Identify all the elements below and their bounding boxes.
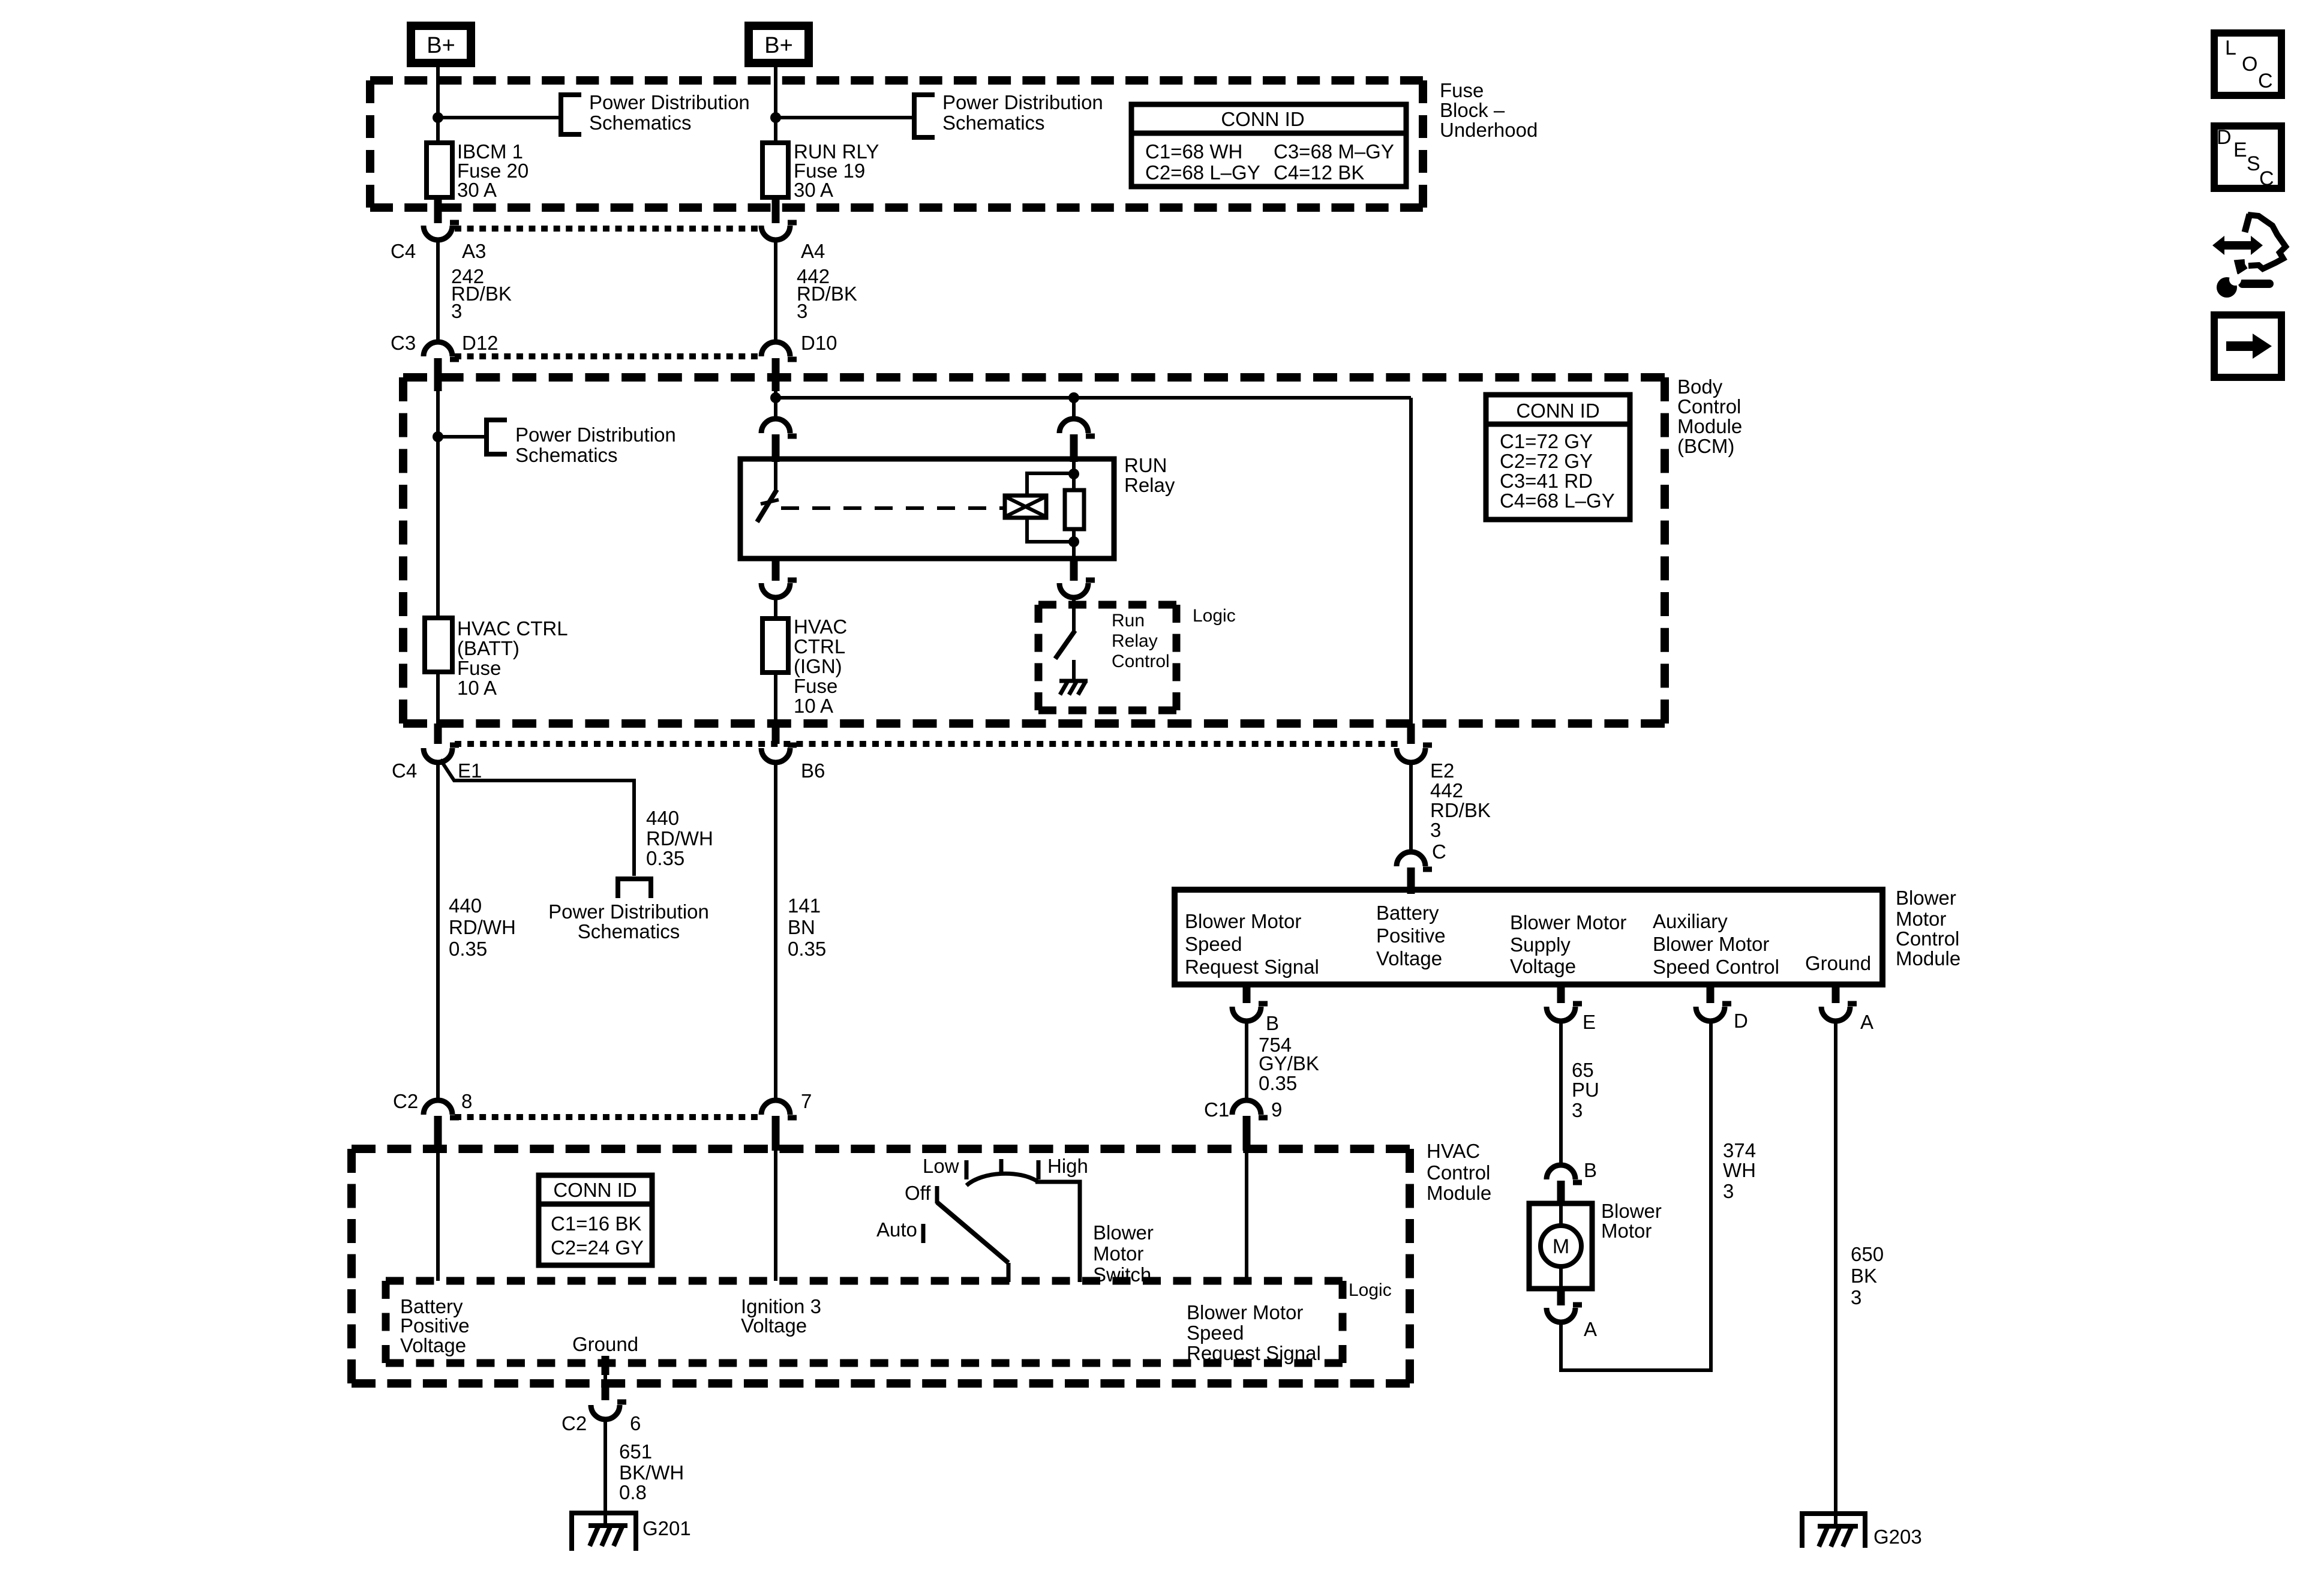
svg-text:651: 651 bbox=[619, 1440, 652, 1463]
svg-text:440: 440 bbox=[449, 894, 482, 917]
svg-text:Module: Module bbox=[1427, 1182, 1491, 1204]
run relay control switch bbox=[1055, 631, 1075, 659]
svg-text:E: E bbox=[2233, 139, 2247, 161]
wire 442 RD/BK: BCM internal to E2 bbox=[1409, 398, 1413, 724]
CONN ID table (HVAC) bbox=[539, 1175, 652, 1265]
svg-text:Motor: Motor bbox=[1896, 908, 1946, 930]
svg-text:10 A: 10 A bbox=[457, 677, 497, 699]
svg-text:C1: C1 bbox=[1204, 1098, 1229, 1121]
svg-text:Voltage: Voltage bbox=[741, 1314, 807, 1337]
svg-text:HVAC CTRL: HVAC CTRL bbox=[457, 617, 568, 640]
svg-text:8: 8 bbox=[461, 1090, 472, 1112]
svg-text:3: 3 bbox=[1430, 819, 1441, 841]
svg-text:Schematics: Schematics bbox=[589, 112, 692, 134]
svg-text:Logic: Logic bbox=[1193, 606, 1236, 626]
svg-text:Schematics: Schematics bbox=[578, 920, 680, 942]
svg-text:Ground: Ground bbox=[572, 1333, 638, 1355]
off-page bracket: Power Distribution Schematics (1) bbox=[561, 95, 581, 134]
svg-text:C: C bbox=[1432, 840, 1446, 863]
svg-text:C4: C4 bbox=[391, 240, 416, 262]
svg-text:C4=12 BK: C4=12 BK bbox=[1274, 161, 1364, 184]
svg-text:Control: Control bbox=[1112, 652, 1170, 671]
svg-text:Power Distribution: Power Distribution bbox=[942, 91, 1103, 113]
wire: fuse BATT down to BCM edge bbox=[436, 672, 440, 724]
svg-text:Supply: Supply bbox=[1510, 933, 1571, 956]
connector blower motor pin A bbox=[1547, 1308, 1575, 1322]
svg-text:0.35: 0.35 bbox=[449, 938, 487, 960]
svg-text:10 A: 10 A bbox=[794, 695, 833, 717]
svg-text:30 A: 30 A bbox=[457, 179, 497, 201]
connector stub C4 pin A3 bbox=[434, 198, 442, 223]
relay coil connection bracket top bbox=[1027, 473, 1071, 496]
svg-text:3: 3 bbox=[797, 300, 807, 322]
svg-text:Speed: Speed bbox=[1187, 1322, 1244, 1344]
svg-text:Underhood: Underhood bbox=[1440, 119, 1538, 141]
ground lead from HVAC logic bbox=[602, 1356, 609, 1375]
svg-text:Blower: Blower bbox=[1093, 1221, 1154, 1244]
svg-text:B: B bbox=[1584, 1159, 1597, 1181]
svg-text:442: 442 bbox=[1430, 779, 1463, 801]
junction on wire 2 bbox=[770, 112, 781, 123]
svg-text:Blower Motor: Blower Motor bbox=[1653, 933, 1769, 955]
connector stub pin A bbox=[1832, 987, 1840, 1003]
connector dotted line C3 row bbox=[455, 353, 758, 359]
svg-text:Blower: Blower bbox=[1896, 887, 1956, 909]
svg-text:Request Signal: Request Signal bbox=[1185, 956, 1319, 978]
fuse RUN RLY Fuse 19 30 A bbox=[762, 143, 788, 197]
svg-text:Block –: Block – bbox=[1440, 99, 1505, 121]
fuse HVAC CTRL (IGN) Fuse 10 A bbox=[762, 619, 788, 673]
svg-text:(BATT): (BATT) bbox=[457, 637, 520, 659]
power symbol B+ terminal 2 bbox=[749, 26, 809, 63]
svg-text:HVAC: HVAC bbox=[1427, 1140, 1480, 1162]
svg-text:D12: D12 bbox=[462, 332, 499, 354]
svg-text:9: 9 bbox=[1271, 1098, 1282, 1121]
svg-text:Low: Low bbox=[923, 1155, 959, 1177]
wire 141 BN: B6 to HVAC pin 7 bbox=[774, 763, 777, 1101]
module box: Fuse Block - Underhood bbox=[370, 76, 1423, 85]
svg-text:CTRL: CTRL bbox=[794, 635, 845, 658]
off-page bracket: Power Distribution Schematics (4) bbox=[618, 879, 651, 898]
connector pin B bbox=[1232, 1007, 1261, 1021]
wire: fuse IGN down to BCM edge bbox=[774, 673, 777, 724]
svg-text:Blower: Blower bbox=[1601, 1200, 1662, 1222]
svg-text:Control: Control bbox=[1896, 927, 1959, 950]
svg-text:A: A bbox=[1860, 1011, 1873, 1033]
wire 442 RD/BK segment bbox=[774, 240, 777, 342]
logic box (HVAC) bbox=[386, 1277, 1343, 1285]
wire: resistor to box bottom bbox=[1072, 529, 1076, 559]
power symbol B+ terminal 1 bbox=[411, 26, 471, 63]
svg-text:C: C bbox=[2258, 70, 2273, 92]
ground symbol G201 bbox=[572, 1513, 636, 1551]
svg-text:0.35: 0.35 bbox=[788, 938, 826, 960]
relay coil symbol (box with X) bbox=[1005, 496, 1046, 518]
svg-text:S: S bbox=[2247, 152, 2260, 175]
wire 440 RD/WH: E1 to HVAC pin 8 bbox=[436, 763, 440, 1101]
svg-text:7: 7 bbox=[801, 1090, 812, 1112]
svg-text:Relay: Relay bbox=[1112, 631, 1158, 651]
svg-text:A4: A4 bbox=[801, 240, 825, 262]
svg-text:C1=68 WH: C1=68 WH bbox=[1145, 140, 1242, 163]
svg-text:RD/WH: RD/WH bbox=[449, 916, 516, 938]
relay actuation dashed link bbox=[781, 506, 1003, 510]
svg-text:Blower Motor: Blower Motor bbox=[1187, 1301, 1303, 1323]
svg-text:D10: D10 bbox=[801, 332, 837, 354]
svg-text:Motor: Motor bbox=[1601, 1220, 1652, 1242]
off-page bracket: Power Distribution Schematics (2) bbox=[914, 95, 935, 137]
junction to power distribution bracket 3 bbox=[433, 431, 443, 442]
wire: pin 8 into HVAC logic bbox=[436, 1151, 440, 1281]
relay input connector (coil side) bbox=[1059, 419, 1088, 433]
svg-text:C: C bbox=[2259, 167, 2274, 190]
svg-text:Voltage: Voltage bbox=[400, 1334, 466, 1356]
switch wiper bbox=[937, 1202, 1008, 1263]
svg-text:L: L bbox=[2225, 37, 2236, 59]
connector blower motor pin B bbox=[1547, 1165, 1575, 1179]
svg-text:RUN: RUN bbox=[1124, 454, 1167, 476]
fuse IBCM 1 Fuse 20 30 A bbox=[427, 143, 452, 197]
relay RUN Relay box bbox=[740, 459, 1114, 559]
wire: relay coil to logic bbox=[1072, 598, 1076, 632]
svg-text:Logic: Logic bbox=[1349, 1280, 1392, 1300]
connector pin E2 bbox=[1397, 748, 1425, 763]
svg-text:A: A bbox=[1584, 1318, 1597, 1340]
connector pin E bbox=[1547, 1007, 1575, 1021]
svg-text:WH: WH bbox=[1723, 1159, 1756, 1181]
svg-text:BK/WH: BK/WH bbox=[619, 1461, 684, 1484]
wire: branch down to relay coil bbox=[1072, 398, 1076, 419]
connector dotted line C4 row bbox=[455, 226, 758, 232]
wire 650 BK: pin A to ground G203 bbox=[1834, 1021, 1837, 1526]
connector stub pin E bbox=[1557, 987, 1565, 1003]
svg-text:(IGN): (IGN) bbox=[794, 655, 842, 677]
svg-text:E: E bbox=[1583, 1011, 1596, 1033]
icon: arrow box bbox=[2214, 315, 2281, 377]
module box: Body Control Module (BCM) bbox=[403, 373, 1665, 382]
svg-text:B+: B+ bbox=[764, 33, 793, 58]
icon: diagnostic tool with double arrow and wrench bbox=[2212, 236, 2263, 255]
connector stub pin B bbox=[1243, 987, 1251, 1003]
connector dotted line BCM bottom row bbox=[455, 741, 1398, 747]
relay output stub (coil side) bbox=[1070, 559, 1078, 581]
svg-text:6: 6 bbox=[630, 1412, 641, 1434]
svg-text:440: 440 bbox=[646, 807, 679, 829]
CONN ID table (fuse block) bbox=[1131, 104, 1406, 187]
svg-text:C1=72 GY: C1=72 GY bbox=[1500, 430, 1593, 452]
svg-text:Power Distribution: Power Distribution bbox=[589, 91, 750, 113]
svg-text:BK: BK bbox=[1851, 1265, 1877, 1287]
svg-text:CONN ID: CONN ID bbox=[1516, 400, 1599, 422]
svg-text:C2: C2 bbox=[393, 1090, 418, 1112]
svg-text:C2=72 GY: C2=72 GY bbox=[1500, 450, 1593, 472]
connector stub C2 pin 6 bbox=[602, 1381, 609, 1400]
connector C1 pin 9 bbox=[1232, 1100, 1261, 1115]
svg-text:CONN ID: CONN ID bbox=[1221, 108, 1304, 130]
svg-text:HVAC: HVAC bbox=[794, 616, 847, 638]
connector stub C4 pin E1 bbox=[434, 724, 442, 744]
svg-text:Power Distribution: Power Distribution bbox=[515, 424, 676, 446]
svg-text:Speed Control: Speed Control bbox=[1653, 956, 1779, 978]
svg-text:Blower Motor: Blower Motor bbox=[1510, 911, 1626, 933]
svg-text:E2: E2 bbox=[1430, 760, 1454, 782]
svg-text:D: D bbox=[1734, 1010, 1748, 1032]
svg-text:B: B bbox=[1266, 1012, 1279, 1034]
svg-text:3: 3 bbox=[1723, 1180, 1734, 1202]
svg-text:0.35: 0.35 bbox=[1259, 1072, 1297, 1094]
svg-text:Motor: Motor bbox=[1093, 1242, 1143, 1265]
svg-text:Run: Run bbox=[1112, 611, 1145, 631]
wire branch 440 RD/WH to power distribution bbox=[440, 760, 634, 876]
svg-text:E1: E1 bbox=[458, 760, 482, 782]
connector stub blower motor pin A bbox=[1557, 1287, 1565, 1305]
svg-text:C1=16 BK: C1=16 BK bbox=[551, 1212, 641, 1235]
wire: relay to HVAC CTRL IGN fuse bbox=[774, 598, 777, 621]
connector C2 pin 8 bbox=[424, 1100, 452, 1115]
svg-text:Ground: Ground bbox=[1805, 952, 1871, 974]
wire: B+2 down to fuse RUN RLY bbox=[774, 67, 777, 145]
svg-text:C4=68 L–GY: C4=68 L–GY bbox=[1500, 490, 1615, 512]
connector pin D bbox=[1696, 1007, 1725, 1021]
svg-text:Control: Control bbox=[1677, 395, 1741, 418]
svg-text:374: 374 bbox=[1723, 1139, 1756, 1161]
wire: junction 1 to power distribution bracket 1 bbox=[438, 116, 561, 119]
svg-text:C2=68 L–GY: C2=68 L–GY bbox=[1145, 161, 1260, 184]
resistor (relay suppression) bbox=[1065, 490, 1084, 529]
wire: B+1 down to fuse IBCM 1 bbox=[436, 67, 440, 145]
svg-text:O: O bbox=[2242, 53, 2257, 76]
svg-text:G201: G201 bbox=[642, 1517, 691, 1539]
icon: LOC box bbox=[2214, 33, 2281, 95]
svg-text:650: 650 bbox=[1851, 1243, 1884, 1265]
logic box: Run Relay Control bbox=[1038, 601, 1176, 609]
junction to RUN relay coil branch bbox=[1068, 392, 1079, 403]
svg-text:C2=24 GY: C2=24 GY bbox=[551, 1236, 644, 1259]
svg-text:Battery: Battery bbox=[1376, 902, 1439, 924]
off-page bracket: Power Distribution Schematics (3) bbox=[487, 420, 507, 454]
svg-text:Positive: Positive bbox=[400, 1314, 470, 1337]
svg-text:Relay: Relay bbox=[1124, 474, 1175, 496]
relay coil connection bracket bottom bbox=[1027, 518, 1071, 542]
wire: feed across to E2 output bbox=[776, 396, 1411, 400]
CONN ID table (BCM) bbox=[1486, 395, 1630, 520]
svg-text:Auxiliary: Auxiliary bbox=[1653, 910, 1728, 932]
svg-text:GY/BK: GY/BK bbox=[1259, 1052, 1319, 1074]
connector stub C4 pin A4 bbox=[772, 198, 780, 223]
wire: blower motor pin A return to pin D (374 WH) bbox=[1561, 1021, 1711, 1370]
svg-text:Speed: Speed bbox=[1185, 933, 1242, 955]
connector pin A bbox=[1821, 1007, 1850, 1021]
wire 65 PU: pin E to blower motor pin B bbox=[1559, 1021, 1563, 1166]
relay output connector (coil side) bbox=[1059, 583, 1088, 598]
connector stub pin D bbox=[1707, 987, 1715, 1003]
svg-text:C3: C3 bbox=[391, 332, 416, 354]
svg-text:Module: Module bbox=[1896, 947, 1960, 969]
svg-text:G203: G203 bbox=[1873, 1526, 1922, 1548]
module box: Blower Motor Control Module bbox=[1175, 890, 1882, 984]
svg-text:C2: C2 bbox=[562, 1412, 587, 1434]
ground symbol G203 bbox=[1802, 1514, 1865, 1548]
junction wire2 / feed to E2 bbox=[770, 392, 781, 403]
fuse HVAC CTRL (BATT) Fuse 10 A bbox=[425, 618, 452, 672]
relay input connector (switch side) bbox=[761, 419, 790, 433]
connector C4 pin E1 bbox=[424, 748, 452, 763]
svg-text:Auto: Auto bbox=[876, 1218, 917, 1241]
connector C2 pin 6 bbox=[591, 1405, 620, 1419]
connector pin 7 bbox=[761, 1100, 790, 1115]
wire 242 RD/BK segment bbox=[436, 240, 440, 342]
svg-text:0.8: 0.8 bbox=[619, 1481, 647, 1503]
svg-text:M: M bbox=[1553, 1235, 1569, 1258]
svg-text:3: 3 bbox=[1572, 1099, 1583, 1121]
svg-text:Fuse: Fuse bbox=[457, 657, 501, 679]
svg-text:Module: Module bbox=[1677, 415, 1742, 437]
connector C3 pin D10 bbox=[761, 342, 790, 356]
svg-text:30 A: 30 A bbox=[794, 179, 833, 201]
svg-text:Off: Off bbox=[905, 1182, 931, 1204]
wire: pin 7 into HVAC logic bbox=[774, 1151, 777, 1281]
svg-text:RD/WH: RD/WH bbox=[646, 827, 713, 849]
svg-text:Fuse: Fuse bbox=[1440, 79, 1484, 101]
junction coil bottom bbox=[1068, 536, 1079, 547]
connector C3 pin D12 bbox=[424, 342, 452, 356]
wire: junction 2 to power distribution bracket 2 bbox=[776, 116, 914, 119]
relay switch contact bbox=[774, 459, 777, 491]
connector C4 pin A4 bbox=[761, 226, 790, 240]
connector C4 pin A3 bbox=[424, 226, 452, 240]
connector stub pin B6 bbox=[772, 724, 780, 744]
svg-text:Fuse: Fuse bbox=[794, 675, 837, 697]
relay output connector (switch side) bbox=[761, 583, 790, 598]
icon: DESC box bbox=[2214, 126, 2281, 188]
svg-text:A3: A3 bbox=[462, 240, 486, 262]
svg-text:B+: B+ bbox=[427, 33, 455, 58]
svg-text:BN: BN bbox=[788, 916, 815, 938]
svg-text:D: D bbox=[2217, 126, 2232, 149]
svg-text:0.35: 0.35 bbox=[646, 847, 684, 869]
svg-text:C3=68 M–GY: C3=68 M–GY bbox=[1274, 140, 1394, 163]
connector dotted line HVAC top row bbox=[455, 1114, 758, 1120]
svg-text:141: 141 bbox=[788, 894, 821, 917]
wire 651 BK/WH to ground G201 bbox=[603, 1419, 607, 1526]
blower motor box bbox=[1529, 1203, 1592, 1289]
svg-text:Positive: Positive bbox=[1376, 924, 1446, 947]
svg-text:Schematics: Schematics bbox=[515, 444, 618, 466]
svg-text:B6: B6 bbox=[801, 760, 825, 782]
wire: D10 into BCM bbox=[774, 391, 777, 420]
module box: HVAC Control Module bbox=[352, 1145, 1410, 1153]
svg-text:Request Signal: Request Signal bbox=[1187, 1342, 1321, 1364]
connector pin B6 bbox=[761, 748, 790, 763]
svg-text:65: 65 bbox=[1572, 1059, 1594, 1081]
connector stub pin E2 bbox=[1407, 724, 1415, 744]
svg-text:CONN ID: CONN ID bbox=[553, 1179, 636, 1201]
wire 442 RD/BK: E2 to BMCM pin C bbox=[1409, 763, 1413, 852]
svg-text:C3=41 RD: C3=41 RD bbox=[1500, 470, 1593, 492]
wire: into resistor bbox=[1072, 462, 1076, 490]
svg-text:Schematics: Schematics bbox=[942, 112, 1045, 134]
ground symbol (logic internal) bbox=[1059, 679, 1088, 683]
wire 754 GY/BK: pin B to HVAC pin 9 bbox=[1245, 1021, 1248, 1100]
svg-text:C4: C4 bbox=[392, 760, 417, 782]
svg-text:High: High bbox=[1047, 1155, 1088, 1177]
svg-text:Body: Body bbox=[1677, 376, 1723, 398]
svg-text:Power Distribution: Power Distribution bbox=[548, 900, 709, 923]
wire: D12 to HVAC CTRL BATT fuse bbox=[436, 391, 440, 620]
wire: junction to bracket 3 bbox=[438, 435, 487, 439]
svg-text:Voltage: Voltage bbox=[1376, 947, 1442, 969]
connector pin C of blower motor control module bbox=[1397, 852, 1425, 866]
svg-text:(BCM): (BCM) bbox=[1677, 435, 1734, 457]
motor M circle bbox=[1541, 1226, 1581, 1266]
relay output stub (switch side) bbox=[772, 559, 780, 581]
svg-text:3: 3 bbox=[451, 300, 462, 322]
svg-text:Control: Control bbox=[1427, 1161, 1490, 1184]
svg-text:RD/BK: RD/BK bbox=[1430, 799, 1491, 821]
svg-text:3: 3 bbox=[1851, 1286, 1861, 1308]
wire: pin 9 into HVAC logic bbox=[1245, 1151, 1248, 1282]
svg-text:Blower Motor: Blower Motor bbox=[1185, 910, 1301, 932]
svg-text:PU: PU bbox=[1572, 1079, 1599, 1101]
svg-text:Voltage: Voltage bbox=[1510, 955, 1576, 977]
junction coil top bbox=[1068, 469, 1079, 479]
junction on wire 1 bbox=[433, 112, 443, 123]
